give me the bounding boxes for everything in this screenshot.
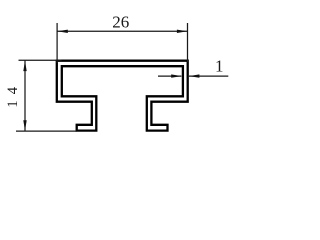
dimension line 14 — [24, 61, 26, 131]
arrowhead right of dim 26 — [177, 30, 188, 33]
extension line left of dim 26 — [56, 23, 58, 63]
svg-text:14: 14 — [5, 81, 21, 108]
arrowhead left of dim 26 — [57, 30, 68, 33]
extension line right of dim 26 — [187, 23, 189, 62]
arrowhead pointing right at wall inner surface — [171, 74, 182, 77]
leader line right of dim 1 (outside wall) — [189, 75, 228, 77]
svg-text:1: 1 — [215, 57, 224, 76]
svg-text:26: 26 — [112, 13, 129, 32]
extension line top of dim 14 — [19, 59, 62, 61]
profile outline: top-hat rail cross-section 26 wide x 14 high, wall 1 — [57, 61, 188, 131]
leader line left of dim 1 (inside channel) — [158, 75, 181, 77]
arrowhead top of dim 14 — [23, 61, 26, 72]
dimension line 26 — [57, 30, 187, 32]
extension line bottom of dim 14 — [16, 130, 77, 132]
arrowhead bottom of dim 14 — [23, 120, 26, 131]
arrowhead pointing left at wall outer surface — [189, 74, 200, 77]
